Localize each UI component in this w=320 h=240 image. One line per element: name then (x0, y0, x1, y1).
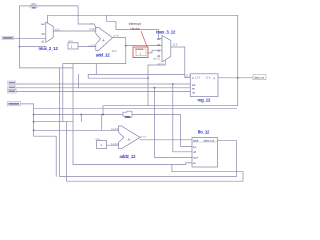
red highlight box (133, 47, 148, 58)
wire riser x73 (73, 64, 192, 165)
left label 5 (7, 102, 20, 106)
node G fanout dot2 (33, 121, 35, 123)
svg-text:12.6: 12.6 (185, 74, 190, 78)
output port label (253, 75, 266, 80)
wire label3 to reg (16, 87, 190, 89)
svg-text:12.6: 12.6 (195, 75, 200, 79)
mux_3_12 (153, 30, 178, 66)
wire fanout2 branch down to bottom wire 2 (67, 122, 244, 182)
wire branch x59.5 to bottom feedback (60, 68, 237, 176)
wire link fanout1 fanout2 (80, 115, 82, 122)
svg-text:d0: d0 (41, 32, 45, 36)
svg-text:data_out: data_out (254, 76, 264, 80)
wire mux_3 out down to reg d (171, 47, 190, 78)
svg-text:d2 12: d2 12 (158, 62, 165, 66)
svg-text:12.6: 12.6 (112, 49, 117, 53)
svg-text:Vector: Vector (130, 27, 140, 31)
svg-text:add2_12: add2_12 (120, 154, 137, 159)
wire input1 to mux_2 d0 (14, 37, 46, 39)
wire H2 long top (48, 15, 238, 22)
wire dot E down to lfo port3 (155, 88, 193, 158)
node E junction label3 wire (154, 87, 156, 89)
wire dot D down to lfo port2 (173, 84, 192, 152)
wire mux_3 d2 staircase (148, 59, 165, 78)
node A junction mux_2 d1 (19, 46, 21, 48)
svg-text:rst: rst (192, 90, 195, 94)
wire branch x148 down (147, 78, 149, 106)
node J junction delay in (102, 114, 104, 116)
svg-text:con...: con... (96, 137, 102, 141)
svg-text:mux_3_12: mux_3_12 (156, 30, 176, 35)
constant C2 (96, 137, 107, 149)
left label 2 (8, 81, 16, 85)
wire fanout1 to delay (34, 114, 123, 116)
wire constant1 to add_12 b (78, 46, 96, 48)
adder add2_12 (111, 126, 147, 159)
svg-text:data_out: data_out (204, 139, 215, 143)
wire d1 into mux_2 (20, 46, 47, 48)
lfo_12 ROM (192, 129, 218, 167)
red pointer line (141, 31, 147, 47)
mux_2_12 (39, 22, 60, 51)
svg-text:12.6: 12.6 (55, 27, 60, 31)
constant C1 (68, 39, 78, 49)
svg-text:sym: sym (193, 156, 199, 160)
node H fanout dot3 (33, 129, 35, 131)
wire W2 band to reg d (88, 77, 148, 79)
adder add_12 (88, 22, 119, 58)
svg-text:12.6: 12.6 (206, 75, 211, 79)
wire parallel low feedback (34, 107, 237, 109)
svg-text:lfo_12: lfo_12 (198, 129, 210, 134)
svg-text:constant: constant (135, 47, 144, 51)
svg-text:a + b: a + b (141, 135, 147, 139)
wire delay out to lfo port1 (132, 115, 192, 147)
svg-text:con...: con... (68, 39, 74, 43)
svg-text:reg_12: reg_12 (198, 97, 211, 102)
wire reg q to output (218, 77, 253, 79)
node I junction on fanout1 (80, 114, 82, 116)
wire feedback riser to mux_2 d1 (20, 47, 74, 68)
left label 4 (7, 90, 16, 94)
svg-text:off: off (193, 150, 196, 154)
node C junction W2 (147, 77, 149, 79)
svg-text:sel: sel (157, 37, 161, 41)
wire label4 to reg (16, 91, 190, 93)
svg-text:d1: d1 (41, 39, 45, 43)
wire add_12 out loop (63, 38, 126, 122)
svg-text:c 12.6: c 12.6 (88, 43, 95, 47)
wire lfo jog (172, 165, 243, 172)
wire mux_3 d1 from red box constant (146, 50, 162, 53)
delay z-1 (123, 111, 132, 118)
svg-text:12.6: 12.6 (172, 42, 177, 46)
svg-text:add_12: add_12 (96, 53, 110, 58)
constant in red box (136, 49, 146, 56)
node B junction reg q (237, 77, 239, 79)
svg-text:sel: sel (41, 22, 45, 26)
wire mux_3 d0 from adder loop (126, 45, 162, 47)
wire H2 jog to mux_3 (107, 15, 163, 38)
wire H1 top feedback to add a (20, 6, 96, 47)
svg-text:Interrupt: Interrupt (129, 22, 141, 26)
node D junction label2 wire (172, 83, 174, 85)
wire right feedback drop (103, 15, 238, 114)
wire mux_2 out to add_12 (53, 30, 96, 32)
svg-text:a + b: a + b (113, 33, 119, 37)
left label 3 (8, 86, 16, 89)
svg-text:a 12.6: a 12.6 (111, 127, 118, 131)
input label 1 (2, 36, 14, 40)
wire W1 band (88, 74, 185, 78)
Interrupt Vector annotation (129, 22, 147, 46)
svg-text:addr: addr (193, 139, 199, 143)
wire fanout3 to add2 a (34, 129, 119, 131)
svg-text:d1 1.2: d1 1.2 (153, 56, 160, 60)
svg-text:b 12.6: b 12.6 (89, 27, 96, 31)
svg-text:+: + (128, 137, 131, 143)
wire label2 to reg (16, 83, 190, 85)
svg-text:mux_2_12: mux_2_12 (39, 46, 59, 51)
wire branch x96.3 down to W1 (95, 64, 97, 75)
wire constant2 to add2 b (107, 144, 119, 146)
wire fanout2 (34, 121, 73, 123)
node K junction d0 takeoff (125, 45, 127, 47)
svg-text:+: + (102, 38, 105, 44)
node F fanout dot1 (33, 114, 35, 116)
register reg_12 (185, 74, 218, 103)
tiny glyph on top wire (30, 3, 38, 8)
svg-text:d1: d1 (157, 48, 161, 52)
svg-text:en: en (193, 161, 197, 165)
wire add2 out to lfo addr (140, 139, 192, 141)
svg-text:d0: d0 (157, 43, 161, 47)
wire label5 to fanout (17, 104, 56, 176)
svg-text:b 12.6: b 12.6 (111, 142, 118, 146)
wire drop to add2 a (101, 115, 103, 131)
wire short link W1-L3 (77, 74, 79, 87)
